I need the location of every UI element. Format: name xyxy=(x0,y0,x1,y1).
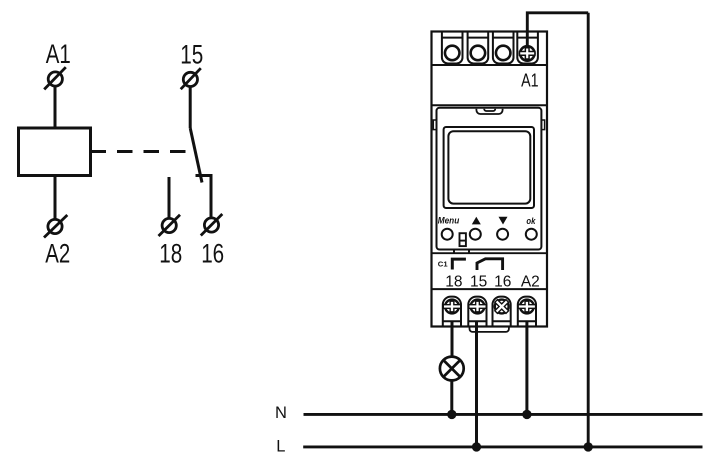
device section line xyxy=(432,104,548,106)
front module bottom step left wall xyxy=(453,250,455,254)
bottom terminal pocket 15 with screw xyxy=(468,297,486,327)
terminal 16 xyxy=(201,214,223,236)
bottom terminal strip top line xyxy=(432,288,548,290)
lamp E1 xyxy=(440,357,464,381)
svg-text:16: 16 xyxy=(201,239,224,269)
right side clip xyxy=(541,120,544,130)
line L xyxy=(303,445,702,448)
bottom terminal pocket A2 with screw xyxy=(518,297,536,327)
device section line below module xyxy=(432,252,548,254)
wire A2 to N xyxy=(525,321,528,414)
button Menu xyxy=(442,229,453,240)
svg-text:N: N xyxy=(275,404,287,422)
device body outline xyxy=(432,32,548,327)
line N xyxy=(304,413,703,416)
contact 16 (NC) hook wire xyxy=(196,176,212,218)
wire right vertical to L xyxy=(587,13,590,447)
svg-text:18: 18 xyxy=(159,239,182,269)
button down xyxy=(497,229,508,240)
svg-text:15: 15 xyxy=(180,40,203,70)
wire 15 to contact arm xyxy=(189,87,192,129)
svg-text:A1: A1 xyxy=(46,39,71,69)
wire A1 to coil xyxy=(54,86,57,128)
small slide switch xyxy=(460,233,466,246)
latch inner notch xyxy=(484,109,495,111)
wire A1 top to supply xyxy=(527,13,588,47)
bottom terminal pocket 16 with cross screw xyxy=(491,295,513,326)
top terminal pocket 3 xyxy=(493,33,514,64)
wire lamp to N xyxy=(450,381,453,415)
contact 18 (NO) wire xyxy=(168,177,171,218)
svg-text:Menu: Menu xyxy=(438,216,460,227)
svg-text:ok: ok xyxy=(526,216,536,227)
display bezel xyxy=(444,127,534,208)
contact arm (moving, 15 to 16 closed) xyxy=(190,128,202,183)
button ok xyxy=(526,229,537,240)
relay coil K1 xyxy=(19,128,91,176)
svg-text:L: L xyxy=(276,438,285,456)
junction lamp-N xyxy=(447,410,456,419)
top terminal pocket 2 xyxy=(468,33,489,64)
button label down arrow xyxy=(499,217,508,225)
DIN rail clip tab xyxy=(470,327,509,332)
svg-text:C1: C1 xyxy=(438,259,448,268)
top terminal strip bottom line xyxy=(432,64,548,66)
terminal 15 xyxy=(181,68,201,89)
bottom terminal pocket 18 with screw xyxy=(443,297,461,327)
wire 18 to lamp xyxy=(451,321,454,357)
svg-text:18: 18 xyxy=(445,273,462,290)
svg-text:A1: A1 xyxy=(521,71,539,91)
front module bottom step right wall xyxy=(468,250,470,254)
junction right-L xyxy=(584,442,593,451)
left side clip xyxy=(433,120,436,130)
button up xyxy=(470,229,481,240)
junction A2-N xyxy=(522,410,531,419)
terminal A2 xyxy=(44,215,67,238)
top terminal pocket 4 (A1) with screw xyxy=(517,33,538,64)
display screen xyxy=(448,131,530,203)
wire coil to A2 xyxy=(54,176,57,220)
front module outline xyxy=(437,108,542,250)
terminal 18 xyxy=(159,215,181,236)
top terminal pocket 1 xyxy=(442,33,463,64)
svg-text:16: 16 xyxy=(494,273,511,290)
terminal A1 xyxy=(44,67,66,89)
contact mark above 15-16 xyxy=(477,259,503,270)
button label up arrow xyxy=(472,217,481,225)
junction 15-L xyxy=(472,442,481,451)
svg-text:A2: A2 xyxy=(45,239,70,269)
front module latch tab xyxy=(476,109,502,114)
dashed actuation link coil to contact xyxy=(91,150,187,153)
contact mark above 18 xyxy=(452,259,466,269)
svg-text:15: 15 xyxy=(470,273,487,290)
wire 15 to L xyxy=(475,321,478,447)
svg-text:A2: A2 xyxy=(521,273,540,290)
